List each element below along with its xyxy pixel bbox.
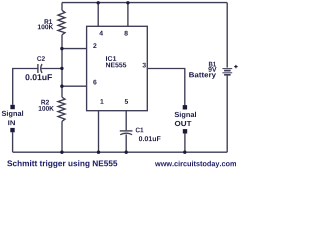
capacitor C1 curved plate xyxy=(120,133,132,135)
terminal Signal OUT top xyxy=(183,105,187,109)
wire bottom ground rail xyxy=(13,151,228,153)
wire pin 8 xyxy=(127,3,129,27)
terminal Signal OUT bottom xyxy=(183,129,187,133)
battery B1 plate short bottom xyxy=(224,74,231,76)
junction node pin4 on VCC rail xyxy=(97,1,100,4)
label C2 value 0.01uF xyxy=(25,74,52,80)
label R2 value 100K xyxy=(39,106,54,111)
resistor R1 xyxy=(58,10,65,35)
wire pin 1 to ground rail xyxy=(98,111,100,153)
label R1 value 100K xyxy=(38,25,54,30)
label NE555 xyxy=(106,63,126,68)
wire pin 5 to C1 xyxy=(125,111,127,131)
wire R1 bottom to pin2 node xyxy=(61,35,63,49)
pin number 1 xyxy=(100,99,103,104)
terminal Signal IN bottom xyxy=(10,128,14,132)
terminal Signal IN top xyxy=(10,105,14,109)
label Signal IN line1 xyxy=(2,111,23,118)
label R1 xyxy=(45,19,53,24)
battery B1 plate long top xyxy=(222,68,232,70)
pin number 6 xyxy=(93,80,96,85)
battery B1 plate long xyxy=(222,72,232,74)
junction node R2 ground xyxy=(60,151,63,154)
wire VCC rail to R1 top xyxy=(61,3,63,11)
label IC1 xyxy=(106,56,116,61)
label B1 xyxy=(209,62,216,67)
pin number 5 xyxy=(125,99,128,104)
label R2 xyxy=(41,100,49,105)
wire Signal OUT lower terminal to ground rail xyxy=(184,133,186,152)
capacitor C2 curved plate xyxy=(41,64,42,73)
wire R2 bottom to ground rail xyxy=(61,121,63,152)
wire C2 left lead and Signal IN drop xyxy=(13,69,38,105)
label Signal OUT line1 xyxy=(175,112,196,119)
watermark www.circuitstoday.com xyxy=(155,161,236,168)
capacitor C1 straight plate xyxy=(120,130,133,132)
wire right vertical to battery + xyxy=(226,3,228,68)
label Signal OUT line2 xyxy=(175,121,192,126)
battery B1 plate short xyxy=(224,70,231,72)
label 9V xyxy=(208,67,216,72)
label C2 xyxy=(37,56,45,61)
label C1 value 0.01uF xyxy=(139,136,161,141)
junction node R1/pin2 xyxy=(60,47,63,50)
wire C2 right lead xyxy=(42,68,63,70)
wire battery - down to ground rail xyxy=(226,76,228,153)
label Signal IN line2 xyxy=(8,120,15,125)
wire C1 to ground rail xyxy=(125,134,127,152)
junction node C2 xyxy=(60,67,63,70)
wire pin6 node to R2 top xyxy=(61,86,63,97)
wire pin 3 to Signal OUT top terminal xyxy=(147,69,185,106)
wire pin 6 xyxy=(62,85,87,87)
battery plus sign xyxy=(234,65,237,68)
IC1 NE555 body xyxy=(87,26,148,110)
pin number 8 xyxy=(124,31,127,36)
junction node pin8 on VCC rail xyxy=(126,1,129,4)
pin number 3 xyxy=(143,63,146,68)
wire top VCC rail xyxy=(62,2,227,4)
pin number 2 xyxy=(93,43,96,48)
junction node pin1 ground xyxy=(97,151,100,154)
wire pin 2 xyxy=(62,48,87,50)
pin number 4 xyxy=(99,31,103,36)
junction node pin6 xyxy=(60,85,63,88)
resistor R2 xyxy=(58,97,65,121)
label C1 xyxy=(136,128,144,133)
wire Signal IN lower terminal to ground rail xyxy=(12,132,14,152)
title Schmitt trigger using NE555 xyxy=(7,160,117,168)
wire pin 4 xyxy=(97,3,99,27)
wire node chain pin2 to pin6 xyxy=(61,49,63,87)
capacitor C2 straight plate xyxy=(37,64,39,73)
label Battery xyxy=(189,72,216,79)
junction node C1 ground xyxy=(125,151,128,154)
junction node SignalOUT ground xyxy=(183,151,186,154)
